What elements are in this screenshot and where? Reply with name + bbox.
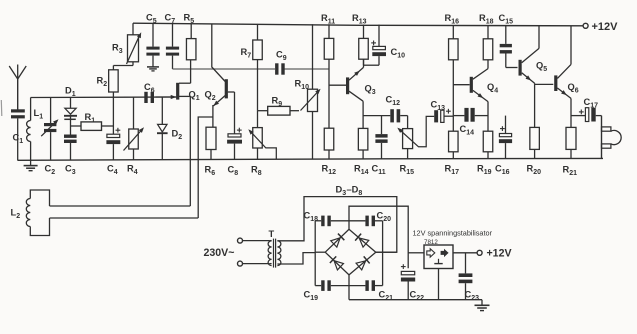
wire Q5 emitter to Q6 base and R20 <box>535 84 554 127</box>
diode bridge upper-left <box>331 234 345 248</box>
svg-text:230V~: 230V~ <box>204 247 235 259</box>
+12V terminal top right <box>583 21 618 33</box>
electrolytic capacitor C16 <box>495 116 512 177</box>
electrolytic capacitor C13 <box>431 100 454 123</box>
wire right AC vertical <box>376 221 397 286</box>
capacitor C5 with ground <box>146 13 160 71</box>
transistor Q2 <box>205 24 235 127</box>
bridge rectifier D3-D8 diamond <box>325 229 376 275</box>
diode D2 <box>157 97 182 160</box>
wire Q4 emitter to R19 <box>487 102 489 132</box>
resistor R14 <box>354 128 369 176</box>
wire detector top <box>31 96 177 99</box>
resistor R11 <box>321 13 335 59</box>
variable capacitor C2 <box>41 97 58 176</box>
resistor R20 <box>527 127 542 176</box>
electrolytic capacitor C4 <box>106 97 120 176</box>
capacitor C18 <box>304 211 350 227</box>
resistor R21 <box>563 127 578 177</box>
capacitor C7 <box>165 13 180 70</box>
resistor R12 <box>322 128 337 176</box>
capacitor C23 <box>459 253 480 302</box>
svg-text:+12V: +12V <box>592 21 619 33</box>
svg-text:12V spanningstabilisator: 12V spanningstabilisator <box>413 229 493 238</box>
capacitor C19 <box>304 280 350 302</box>
diode bridge lower-right <box>356 256 370 270</box>
transistor Q1 JFET <box>156 60 200 102</box>
resistor R1 <box>71 112 114 130</box>
capacitor C21 <box>349 280 393 302</box>
wire Q1 source to L2 <box>189 96 191 206</box>
capacitor C9 <box>275 50 287 75</box>
wire Q2 emitter to L2 <box>198 117 213 218</box>
label D3-D8 <box>336 185 363 198</box>
diode D1 <box>64 86 77 135</box>
wire secondary top to bridge right <box>277 197 396 253</box>
inductor L1 <box>27 98 44 161</box>
diode bridge upper-right <box>355 234 369 248</box>
wire bottom ground rail <box>18 158 604 160</box>
antenna <box>9 65 26 111</box>
voltage regulator 7812 box <box>408 229 492 269</box>
wire Q6 emitter node <box>570 98 572 127</box>
transistor Q5 <box>520 26 547 85</box>
earphone speaker <box>602 116 622 159</box>
ground symbol supply <box>475 300 490 311</box>
resistor R16 <box>445 13 460 60</box>
ground symbol main <box>24 160 38 170</box>
resistor R5 <box>184 13 196 60</box>
inductor L2 feedback coil <box>11 190 50 236</box>
wire secondary bottom to bridge left <box>277 253 315 264</box>
electrolytic capacitor C17 <box>571 97 602 122</box>
wire bridge DC+ to regulator <box>349 206 408 268</box>
scan artifact left edge <box>0 100 3 116</box>
wire L2 to Q1 source <box>50 205 191 207</box>
capacitor C3 <box>64 135 77 177</box>
resistor R17 <box>445 131 460 176</box>
resistor R4 variable <box>124 97 145 176</box>
electrolytic capacitor C22 <box>401 264 424 302</box>
transistor Q3 <box>329 59 376 128</box>
wire bridge DC- to supply ground rail <box>348 275 350 300</box>
electrolytic capacitor C8 <box>227 92 242 177</box>
capacitor C12 <box>386 95 408 123</box>
transformer T <box>268 229 281 268</box>
resistor R18 <box>479 13 494 60</box>
capacitor C1 <box>11 109 25 160</box>
supply ground rail <box>349 299 482 301</box>
transistor Q4 <box>453 60 498 102</box>
svg-text:T: T <box>269 229 275 239</box>
wire L2 to Q2 emitter branch <box>50 217 199 219</box>
resistor R7 <box>241 24 263 111</box>
resistor R6 <box>205 127 217 177</box>
wire R11 R12 divider <box>328 59 330 128</box>
wire AGC mid line <box>173 68 329 70</box>
svg-text:7812: 7812 <box>424 239 438 246</box>
resistor R19 <box>477 131 493 176</box>
capacitor C15 <box>499 13 518 68</box>
resistor R3 variable <box>112 23 141 65</box>
electrolytic capacitor C10 <box>364 25 406 66</box>
transistor Q6 <box>556 26 579 99</box>
wire top +12V supply rail <box>133 23 583 26</box>
diode bridge lower-left <box>330 256 344 270</box>
wire Q3 collector row <box>363 115 390 117</box>
resistor R13 <box>352 13 368 65</box>
resistor R2 <box>97 66 119 98</box>
resistor R9 <box>258 96 300 116</box>
wire R16 R17 divider <box>452 60 454 131</box>
wire regulator ground <box>438 269 440 300</box>
capacitor C6 <box>144 82 155 103</box>
wire regulator output +12V <box>453 248 512 260</box>
svg-text:+12V: +12V <box>487 248 512 260</box>
resistor R10 variable <box>295 24 321 159</box>
capacitor C11 <box>372 116 388 177</box>
230V input terminals <box>204 238 270 266</box>
resistor R8 variable <box>248 111 276 177</box>
capacitor C20 <box>349 211 391 227</box>
wire left AC vertical <box>315 221 325 286</box>
capacitor C14 <box>453 108 488 137</box>
resistor R15 variable volume <box>397 116 434 177</box>
